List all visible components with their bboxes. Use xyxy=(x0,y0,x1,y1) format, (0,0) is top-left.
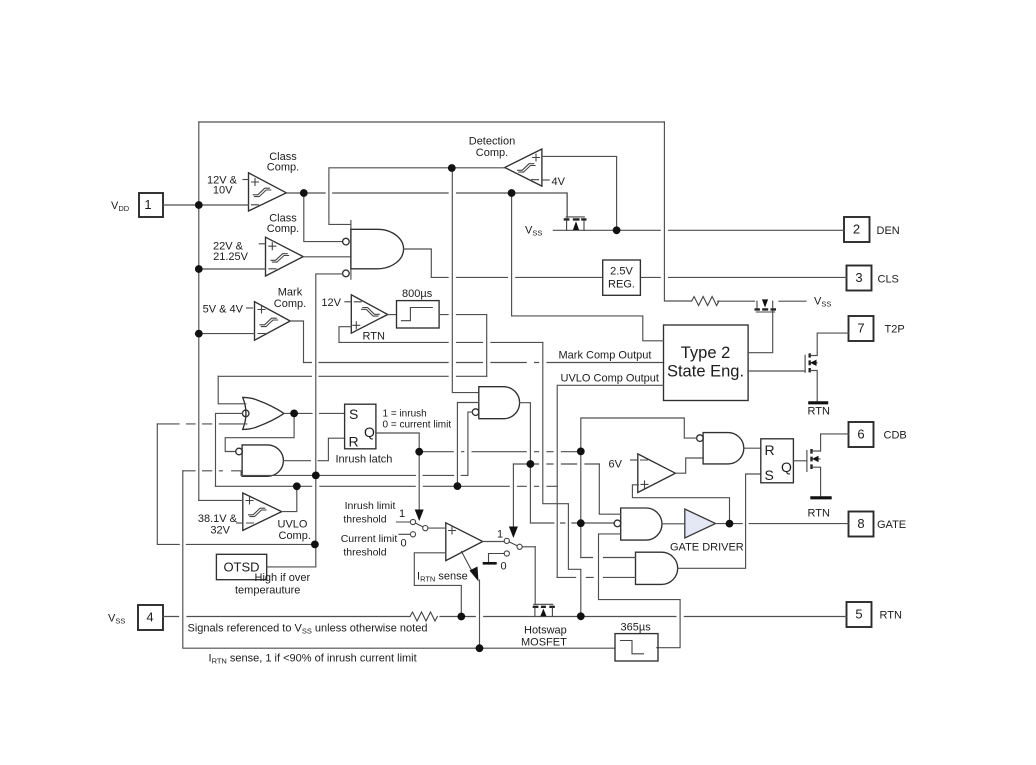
wire mark output riser xyxy=(290,321,303,363)
node dot latch Q xyxy=(415,448,423,456)
wire class2 minus input from VDD trunk xyxy=(199,268,266,270)
latch RS (CDB) xyxy=(761,439,794,483)
svg-text:UVLO Comp Output: UVLO Comp Output xyxy=(561,373,659,385)
comparator 6V gate monitor xyxy=(609,454,676,493)
AND gate AND3 (gate enable) xyxy=(636,552,678,584)
svg-text:Comp.: Comp. xyxy=(267,162,299,174)
wire bottom signal rail y648 xyxy=(183,471,615,648)
node dot class1 bus / type2 riser xyxy=(508,189,516,197)
node dot Q bus at trunk C xyxy=(577,448,585,456)
wire UVLO output riser to bus xyxy=(282,486,297,511)
AND gate class (4 inputs, bar) xyxy=(343,221,404,280)
pin 2 DEN box xyxy=(844,217,870,242)
arrow currlim output down to bottom rail xyxy=(462,552,474,575)
pin 4 VSS box xyxy=(138,605,163,630)
wire detection plus input loop to DEN dot xyxy=(542,156,617,230)
svg-text:IRTN sense, 1 if <90% of inrus: IRTN sense, 1 if <90% of inrush current … xyxy=(209,653,417,666)
wire RTN staircase down to hotswap drain xyxy=(543,342,581,616)
wire detection trunk down to AND2 in1 xyxy=(452,168,479,393)
wire NAND2 in3 from 365us one-shot loop xyxy=(599,534,681,648)
wire VDD trunk left xyxy=(198,122,200,500)
svg-text:6: 6 xyxy=(857,427,864,442)
svg-text:Current limit: Current limit xyxy=(341,533,398,545)
transistor CDB open-drain MOSFET xyxy=(807,434,849,496)
wire AND3 in2 from UVLO trunk B corner (hops at 580.8, 598.5) xyxy=(557,576,635,578)
arrow AND2 output to right switch xyxy=(512,464,514,529)
wire resistor to clamp MOSFET xyxy=(718,300,755,302)
node dot pin1/class1 xyxy=(195,201,203,209)
wire AND2 bubble in3 from busE riser xyxy=(468,412,472,475)
wire UVLO bus y486.3 (hops at 315.8,419.2,513.4,530.4,542.8) xyxy=(216,485,558,487)
node dot NOR-in3 wire at OTSD trunk xyxy=(311,541,319,549)
transistor T2P open-drain MOSFET xyxy=(805,333,848,402)
wire 12V comp output to 800us xyxy=(388,314,397,316)
svg-text:Inrush latch: Inrush latch xyxy=(336,454,393,466)
svg-text:GATE DRIVER: GATE DRIVER xyxy=(670,542,744,554)
svg-text:S: S xyxy=(349,406,358,422)
wire 6V comp output to NAND1 in2 xyxy=(675,458,703,473)
box 800us one-shot xyxy=(397,288,440,328)
svg-text:2: 2 xyxy=(853,222,860,237)
comparator 12V osc comp xyxy=(321,295,387,333)
svg-text:12V: 12V xyxy=(321,297,341,309)
wire IRTN sense feedback loop xyxy=(414,553,461,617)
wire Mark Comp Output bus y362.5 to Type2 (hops at 314.7,452.3,486.7,530.4,542.8) xyxy=(304,362,664,364)
svg-text:1: 1 xyxy=(144,197,151,212)
wire driver output to pin8 GATE (hop at 745.6) xyxy=(716,523,849,525)
svg-text:5V & 4V: 5V & 4V xyxy=(203,304,244,316)
wire AND3 output to S riser xyxy=(678,474,761,568)
wire class1 minus input from VDD trunk xyxy=(199,204,249,206)
transistor Hotswap MOSFET xyxy=(533,547,555,617)
pin 3 CLS box xyxy=(847,266,872,291)
wire 12V comp plus to RTN rail start xyxy=(339,327,351,343)
wire VDD top rail xyxy=(199,121,665,123)
node dot RTN drain xyxy=(577,612,585,620)
svg-text:0: 0 xyxy=(501,561,507,573)
wire detection output to class AND in1 xyxy=(329,168,505,225)
wire class AND output to CLS bus xyxy=(404,249,432,277)
svg-text:Comp.: Comp. xyxy=(267,223,299,235)
comparator Mark Comp (5V & 4V) xyxy=(203,287,307,341)
wire AND2 in2 riser from UVLO bus xyxy=(457,403,478,487)
wire 6V comp plus input from gate node riser xyxy=(632,485,729,524)
wire clamp MOSFET to VSS label xyxy=(779,300,806,302)
wire RS Q output to CDB mosfet gate xyxy=(793,460,807,462)
svg-text:4: 4 xyxy=(146,610,153,625)
svg-text:High if over: High if over xyxy=(255,572,311,584)
wire AND3 in1 from trunk C corner (hop at 598.5) xyxy=(581,557,636,559)
wire pin1 to VDD trunk xyxy=(163,204,199,206)
svg-text:State Eng.: State Eng. xyxy=(667,363,744,381)
node dot busE at OTSD trunk xyxy=(312,472,320,480)
svg-text:GATE: GATE xyxy=(877,519,906,531)
resistor R1 to VSS clamp (top right) xyxy=(692,297,719,306)
node dot DEN xyxy=(613,226,621,234)
wire NAND2 in1 riser from bus464 xyxy=(599,464,620,514)
wire class-prob input into Type2 (from trunk x511.6) xyxy=(512,193,664,341)
wire NAND2 output to driver xyxy=(662,523,685,525)
wire OTSD output to trunk xyxy=(267,566,316,568)
svg-text:8: 8 xyxy=(857,516,864,531)
comparator Class Comp 2 (22V & 21.25V) xyxy=(213,213,303,277)
ground RTN (under T2P) xyxy=(808,403,830,418)
svg-text:365µs: 365µs xyxy=(621,622,652,634)
svg-text:CDB: CDB xyxy=(884,430,907,442)
arrow latch Q to inrush switch xyxy=(418,452,420,512)
svg-text:Q: Q xyxy=(781,459,792,475)
svg-text:R: R xyxy=(765,442,775,458)
latch Inrush SR xyxy=(345,404,376,449)
wire CLS bus y277.4 through 2.5V REG to pin3 (hops at 452.3, 511.6, 664.4) xyxy=(431,276,846,278)
svg-text:4V: 4V xyxy=(552,176,566,188)
svg-text:Hotswap: Hotswap xyxy=(524,625,567,637)
svg-text:T2P: T2P xyxy=(885,324,905,336)
pin 6 CDB box xyxy=(849,422,874,447)
comparator Class Comp 1 (12V & 10V) xyxy=(207,151,299,211)
transistor DEN detection MOSFET xyxy=(525,193,617,238)
svg-text:MOSFET: MOSFET xyxy=(521,637,567,649)
svg-text:temperauture: temperauture xyxy=(235,585,300,597)
pin 1 VDD box xyxy=(139,193,163,217)
svg-text:10V: 10V xyxy=(213,185,233,197)
svg-text:Detection: Detection xyxy=(469,136,515,148)
svg-text:21.25V: 21.25V xyxy=(213,251,249,263)
wire NOR feedback to AND1 bubble xyxy=(225,413,294,451)
svg-text:800µs: 800µs xyxy=(402,288,433,300)
wire Q bus y451.7 to trunk C (hops at 457.4,467.9,530.4,542.8,557.2) xyxy=(419,451,581,453)
svg-text:Comp.: Comp. xyxy=(476,147,508,159)
svg-text:Mark: Mark xyxy=(278,287,303,299)
wire NOR output to S (hop at 315.8) xyxy=(284,412,345,414)
svg-text:5: 5 xyxy=(855,607,862,622)
svg-text:threshold: threshold xyxy=(343,514,386,526)
comparator UVLO Comp (38.1V & 32V) xyxy=(198,493,311,542)
node dot class2 minus xyxy=(195,265,203,273)
svg-text:0: 0 xyxy=(401,538,407,550)
wire UVLO trunk B down to AND3 in2 xyxy=(556,486,558,577)
wire AND2 output down to NAND2 bubble wire xyxy=(520,403,614,523)
wire busE I_RTN-sense y470.8/475.4 (hops at 198.8,215.5,225.2,419.2,457.4) xyxy=(183,471,468,476)
NAND gate NAND1 (CDB reset) xyxy=(697,433,744,464)
AND gate AND2 (4-input, inrush/current-limit select) xyxy=(472,387,519,419)
pin 5 RTN box xyxy=(847,602,872,627)
svg-text:REG.: REG. xyxy=(608,279,635,291)
svg-text:1: 1 xyxy=(497,529,503,541)
wire NAND1 output to R of RS latch xyxy=(744,447,761,449)
svg-text:Mark Comp Output: Mark Comp Output xyxy=(559,350,652,362)
node dot mark minus xyxy=(195,330,203,338)
wire RTN rail y342.4 to staircase (hops at 452.3, 486.7) xyxy=(339,341,543,343)
wire bus464 from arrow corner to NAND2 riser (hops at 542.8,557.2,580.8) xyxy=(513,463,599,465)
svg-text:UVLO: UVLO xyxy=(278,519,308,531)
wire Type2 out1 to clamp mosfet source xyxy=(748,311,773,353)
NAND gate NAND2 (gate driver enable) xyxy=(614,508,662,540)
svg-text:0 = current limit: 0 = current limit xyxy=(383,420,452,431)
svg-text:threshold: threshold xyxy=(343,547,386,559)
svg-text:Type 2: Type 2 xyxy=(681,344,731,362)
svg-text:38.1V &: 38.1V & xyxy=(198,513,238,525)
node dot UVLO bus at AND2 riser xyxy=(454,482,462,490)
wire class1 output to dot xyxy=(287,192,304,194)
wire UVLO plus input from VDD trunk xyxy=(199,499,243,501)
svg-text:Q: Q xyxy=(364,424,375,440)
node dot UVLO comp output xyxy=(293,482,301,490)
switch IRTN-sense select (right) xyxy=(483,529,536,573)
svg-text:R: R xyxy=(349,434,359,450)
node dot NOR output xyxy=(290,410,298,418)
svg-text:1 = inrush: 1 = inrush xyxy=(383,409,427,420)
svg-text:RTN: RTN xyxy=(808,406,830,418)
ground RTN (under CDB) xyxy=(808,498,832,520)
pin 7 T2P box xyxy=(849,316,874,341)
svg-text:CLS: CLS xyxy=(878,274,899,286)
triangle GATE DRIVER xyxy=(670,509,744,554)
wire class1 dot riser to class AND bubble1 xyxy=(304,193,342,242)
wire VDD right edge down to resistor xyxy=(664,122,691,301)
node dot NAND2 bubble wire at trunk C xyxy=(577,519,585,527)
svg-text:6V: 6V xyxy=(609,459,623,471)
wire UVLO comp output riser into Type2 xyxy=(557,385,663,486)
wire AND1 output to R riser xyxy=(283,438,344,461)
comparator current limit xyxy=(446,523,483,561)
node dot gate driver output xyxy=(726,520,734,528)
svg-text:2.5V: 2.5V xyxy=(610,266,633,278)
wire Type2 out2 to T2P gate xyxy=(748,370,805,372)
NOR gate (inrush set) xyxy=(242,397,284,429)
svg-text:1: 1 xyxy=(399,508,405,520)
svg-text:DEN: DEN xyxy=(877,225,900,237)
box 365us one-shot xyxy=(615,622,658,662)
resistor R-sense (bottom) xyxy=(410,612,437,621)
box 2.5V REG xyxy=(603,260,641,295)
wire DEN net y230.3 to pin2 (hop at 664.4) xyxy=(617,229,844,231)
wire NOR in3 y423.9 from left trunk (hops at 182.8, 198.8, 215.5) xyxy=(157,423,247,425)
svg-text:3: 3 xyxy=(855,270,862,285)
comparator Detection Comp (points left, 4V) xyxy=(469,136,566,189)
wire latch Q output to dot xyxy=(376,433,419,452)
node dot AND2 output at bus464 xyxy=(527,460,535,468)
svg-text:RTN: RTN xyxy=(808,508,830,520)
svg-text:RTN: RTN xyxy=(880,610,902,622)
switch inrush/current-limit threshold (left) xyxy=(397,508,446,550)
svg-text:7: 7 xyxy=(857,321,864,336)
svg-text:32V: 32V xyxy=(210,525,230,537)
wire class2 output to class AND in2 xyxy=(303,256,351,258)
wire left trunk x157.3 down to busE xyxy=(157,424,314,545)
wire 800us bus y376.3 left to NOR riser (hops at 314.7, 452.3) xyxy=(218,375,487,377)
pin 8 GATE box xyxy=(849,512,874,537)
node dot bottom rail / comparator arrow xyxy=(476,644,484,652)
wire 800us output to NOR bus (hop at 452.3) xyxy=(439,315,487,377)
svg-text:Comp.: Comp. xyxy=(274,298,306,310)
wire class AND bubble2 from OTSD trunk xyxy=(316,274,343,567)
box OTSD xyxy=(216,554,266,579)
svg-text:Inrush limit: Inrush limit xyxy=(345,500,396,512)
AND gate inrush-reset (AND1) xyxy=(236,445,284,476)
box Type 2 State Eng xyxy=(664,325,749,401)
svg-text:RTN: RTN xyxy=(363,331,385,343)
wire NOR in1 from 800us bus riser xyxy=(218,376,246,404)
wire NAND1 bubble from Q-bus riser xyxy=(581,418,697,558)
svg-text:Comp.: Comp. xyxy=(279,530,311,542)
wire VSS bottom rail (pin4 to resistor to MOSFET to pin5) with hops xyxy=(163,616,847,618)
svg-text:S: S xyxy=(765,467,774,483)
node dot class1 output xyxy=(300,189,308,197)
node dot detection output xyxy=(448,164,456,172)
transistor VSS clamp MOSFET (top right) xyxy=(755,299,777,312)
wire mark minus input from VDD trunk xyxy=(199,333,255,335)
wire NOR in2 bubble from UVLO bus riser xyxy=(216,413,243,486)
node dot VSS sense xyxy=(457,613,465,621)
wire class1 output bus y193 to DEN mosfet gate riser (hops at 328.9, 452.3) xyxy=(304,193,567,218)
wire currlim output to right switch pole xyxy=(483,541,505,543)
